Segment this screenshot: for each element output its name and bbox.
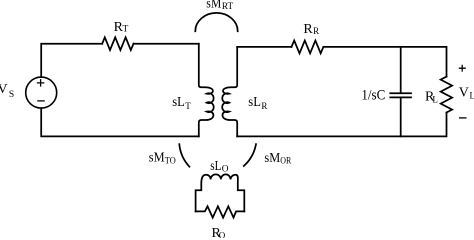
svg-text:T: T (185, 101, 191, 111)
svg-text:V: V (0, 82, 8, 97)
svg-text:L: L (470, 91, 474, 101)
svg-text:sM: sM (206, 0, 221, 12)
svg-text:TO: TO (165, 155, 176, 165)
svg-text:sM: sM (264, 151, 280, 166)
svg-text:R: R (313, 26, 319, 36)
svg-text:L: L (432, 94, 438, 104)
svg-text:OR: OR (280, 155, 291, 165)
svg-text:S: S (9, 90, 14, 100)
svg-text:sL: sL (210, 158, 221, 173)
svg-text:1/sC: 1/sC (361, 88, 385, 104)
svg-text:O: O (222, 165, 229, 175)
svg-text:sL: sL (248, 94, 261, 109)
svg-text:O: O (219, 231, 226, 239)
svg-text:V: V (459, 85, 469, 100)
svg-text:R: R (303, 22, 313, 37)
svg-text:sM: sM (149, 150, 165, 165)
svg-text:T: T (123, 25, 129, 35)
svg-text:sL: sL (172, 94, 185, 109)
svg-text:R: R (261, 101, 267, 111)
svg-text:RT: RT (222, 2, 234, 12)
